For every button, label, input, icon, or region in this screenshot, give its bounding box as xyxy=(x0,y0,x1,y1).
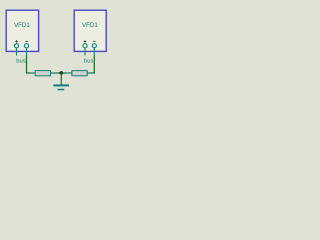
ground xyxy=(53,81,69,91)
resistor R2 left lead xyxy=(66,72,72,74)
resistor R1 right lead xyxy=(51,72,57,74)
pin + (left box) xyxy=(14,40,18,55)
resistor R1 left lead xyxy=(29,72,35,74)
background xyxy=(0,0,120,100)
wire R1 to junction xyxy=(56,72,61,74)
resistor R2 body xyxy=(72,71,87,76)
resistor R1 body xyxy=(35,71,50,76)
resistor R2 right lead xyxy=(87,72,93,74)
pin - (right box) xyxy=(92,41,96,55)
wire right vertical to right box pin - xyxy=(93,55,94,73)
label VFD1 (right) xyxy=(82,22,98,29)
label VFD1 (left) xyxy=(14,22,30,29)
wire left vertical from left box pin - xyxy=(27,55,30,73)
svg-text:VFD1: VFD1 xyxy=(14,22,30,29)
net label bus (right) xyxy=(84,58,93,64)
pin + (right box) xyxy=(83,40,87,55)
svg-text:VFD1: VFD1 xyxy=(82,22,98,29)
wire junction to R2 xyxy=(61,72,66,74)
junction dot xyxy=(60,71,64,75)
svg-text:bus: bus xyxy=(16,58,25,64)
VFD display VFD1 (left) body xyxy=(6,10,38,51)
VFD display VFD1 (right) body xyxy=(74,10,106,51)
net label bus (left) xyxy=(16,58,25,64)
pin - (left box) xyxy=(24,41,28,55)
wire junction to ground xyxy=(60,73,62,81)
svg-text:bus: bus xyxy=(84,58,93,64)
